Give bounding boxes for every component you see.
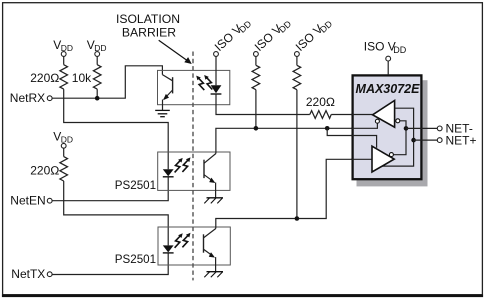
resistor R6 220 ohm (horizontal, receiver output): [310, 111, 331, 119]
wire ISO VDD to top opto LED anode: [215, 56, 217, 85]
wire NET- out: [406, 127, 437, 129]
junction pull-up R5 on driver input net: [295, 216, 300, 221]
driver buffer (points right): [372, 146, 394, 172]
transistor Q2 phototransistor of middle opto: [204, 154, 216, 184]
transistor Q3 phototransistor of bottom opto: [204, 229, 216, 258]
svg-text:ISOLATION: ISOLATION: [116, 12, 180, 26]
terminal ISO VDD (pull-up R5): [293, 14, 335, 55]
wire middle opto collector to receiver-enable net: [216, 123, 378, 154]
wire R3 down to bottom opto LED anode: [64, 181, 169, 245]
terminal NET+: [437, 138, 442, 143]
receiver inverting input bubble: [396, 119, 400, 123]
op-amp style receiver buffer (points left): [373, 101, 395, 128]
optocoupler U2 top (receive path) box: [158, 70, 230, 104]
svg-text:NetTX: NetTX: [11, 267, 45, 281]
receiver enable bubble: [375, 119, 379, 123]
wire receiver inverting input to NET- node: [393, 121, 406, 155]
wire branch to driver enable: [327, 128, 376, 148]
resistor R5 pull-up to driver input net: [293, 56, 301, 218]
svg-text:NetEN: NetEN: [10, 194, 45, 208]
svg-text:BARRIER: BARRIER: [122, 26, 176, 40]
svg-text:MAX3072E: MAX3072E: [356, 82, 421, 96]
resistor R3 220 ohm (feed to bottom opto LED): [60, 148, 68, 181]
frame bottom thick rule: [2, 295, 483, 298]
svg-text:NET+: NET+: [446, 133, 477, 147]
transistor Q1 phototransistor of top opto: [162, 75, 172, 101]
junction NET- node: [404, 126, 409, 131]
LED D2 of middle opto: [163, 169, 174, 177]
light arrows top opto (pointing up-left): [196, 76, 204, 91]
wire NET+ out: [414, 139, 438, 141]
arrow from ISOLATION BARRIER label to barrier line: [159, 40, 189, 61]
ground (ISO side, bottom opto): [204, 272, 223, 278]
IC U1 MAX3072E body: [353, 75, 422, 179]
resistor R1 220 ohm (NetRX pull-up feed to middle opto LED): [60, 56, 68, 89]
resistor R2 10k (NetRX pull-up): [93, 56, 101, 98]
light arrows middle opto (pointing up-right): [175, 158, 183, 173]
junction enable net branch: [325, 126, 330, 131]
wire ISO VDD to IC: [387, 61, 389, 75]
optocoupler U4 bottom (transmit path) box: [158, 227, 230, 265]
LED D3 of bottom opto: [163, 245, 174, 253]
LED D1 of top opto: [211, 85, 222, 94]
wire NetTX to bottom opto LED cathode: [52, 253, 168, 275]
junction NET+ node: [411, 138, 416, 143]
svg-text:PS2501: PS2501: [115, 179, 156, 192]
wire middle opto emitter to ground: [215, 183, 217, 198]
wire NetEN to middle opto LED cathode: [52, 177, 168, 201]
wire receiver non-inverting input to NET+ node: [382, 108, 414, 166]
wire driver input inside IC: [351, 158, 372, 160]
optocoupler U3 middle (enable path) box: [158, 152, 230, 190]
wire NetRX to top opto transistor collector: [52, 66, 162, 98]
isolation barrier dashed line: [192, 52, 194, 281]
svg-text:220Ω: 220Ω: [306, 95, 335, 109]
wire driver enable inside IC: [351, 136, 377, 148]
wire bottom opto emitter to ground: [215, 257, 217, 272]
wire top opto LED cathode to 220 ohm R6 and receiver output: [216, 94, 373, 115]
wire bottom opto collector to driver input: [216, 159, 372, 228]
svg-text:ISO V: ISO V: [364, 40, 396, 54]
ground (logic side): [155, 110, 170, 116]
driver inverting output bubble: [389, 153, 393, 157]
IC U1 MAX3072E shadow: [357, 80, 428, 186]
wire top opto emitter to ground: [162, 100, 164, 111]
svg-text:DD: DD: [61, 134, 73, 144]
wire receiver output inside IC: [351, 114, 373, 116]
terminal ISO VDD (top opto LED supply): [212, 14, 254, 55]
resistor R4 pull-up to receiver enable net: [252, 56, 260, 128]
ground (ISO side, middle opto): [204, 198, 223, 204]
svg-text:10k: 10k: [72, 71, 92, 85]
wire R1 220ohm down to middle opto LED anode: [64, 89, 169, 169]
svg-text:220Ω: 220Ω: [30, 71, 59, 85]
terminal ISO VDD (pull-up R4): [252, 14, 294, 55]
svg-text:NetRX: NetRX: [10, 91, 45, 105]
light arrows bottom opto (pointing up-right): [175, 233, 183, 248]
junction NetRX / 10k: [95, 96, 100, 101]
svg-text:220Ω: 220Ω: [30, 164, 59, 178]
terminal NET-: [437, 126, 442, 131]
svg-text:DD: DD: [393, 45, 406, 55]
wire receiver enable inside IC: [351, 123, 377, 128]
svg-text:PS2501: PS2501: [115, 253, 156, 266]
junction pull-up R4 on enable net: [254, 126, 259, 131]
